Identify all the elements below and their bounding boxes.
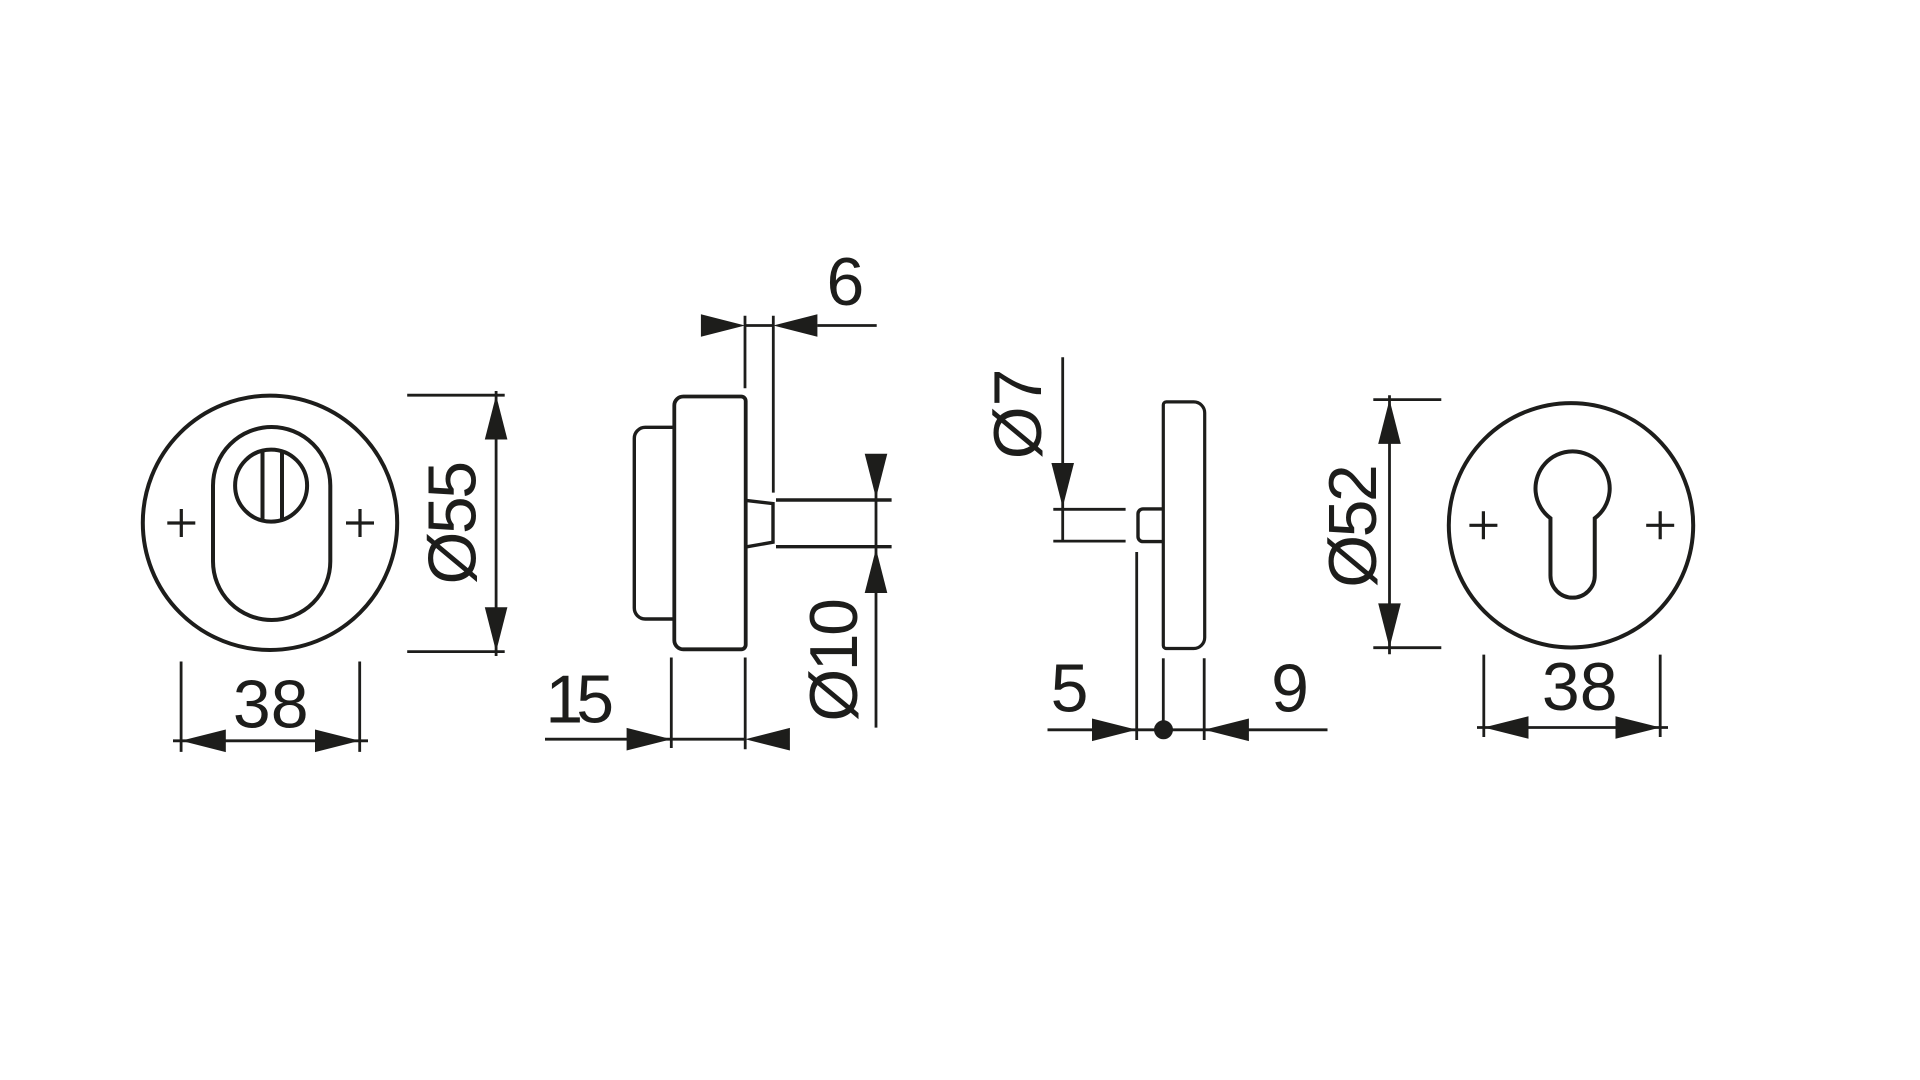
dimension 6: extension line left	[744, 316, 747, 389]
dimension Ø55: arrowhead up	[485, 395, 508, 439]
dimension 38 (view 4): dimension line	[1477, 726, 1668, 729]
dimension 6: arrowhead left-pointing (right side)	[773, 314, 817, 337]
svg-text:38: 38	[1542, 649, 1618, 725]
dimension 38 (view 4): extension line left	[1482, 655, 1485, 737]
plus mark left	[167, 509, 195, 537]
plus mark right (view 4)	[1646, 511, 1674, 539]
svg-text:9: 9	[1271, 651, 1309, 727]
svg-text:Ø52: Ø52	[1315, 467, 1391, 588]
dimension 6: tail line	[817, 324, 876, 327]
dimension 38 (view 1): dimension line	[173, 739, 368, 742]
dimension Ø52: arrowhead up	[1378, 400, 1401, 444]
dimension 15: arrowhead left-pointing	[745, 728, 790, 751]
dimension 5/9: extension line (body left face)	[1162, 658, 1165, 721]
dimension 6: dimension line segment	[745, 324, 773, 327]
dimension Ø55: extension line bottom	[407, 650, 505, 653]
dimension 38 (view 1): arrowhead left	[181, 730, 226, 753]
dimension 9: extension line (body right face)	[1203, 658, 1206, 740]
oval cylinder-protection insert	[213, 427, 330, 620]
euro profile keyhole	[1535, 451, 1609, 597]
dimension Ø7: dimension line vertical	[1061, 357, 1064, 541]
svg-text:Ø55: Ø55	[415, 463, 491, 584]
pin stub (left protrusion)	[1138, 509, 1164, 542]
svg-text:5: 5	[1051, 651, 1089, 727]
dimension Ø10: extension line top (pin silhouette)	[776, 498, 892, 501]
outer circle Ø55 rosette	[143, 396, 397, 650]
dimension Ø52: arrowhead down	[1378, 603, 1401, 647]
plus mark right	[346, 509, 374, 537]
dimension Ø55: dimension line	[495, 391, 498, 656]
dimension 15: dimension line with left tail	[545, 738, 745, 741]
dimension 9: arrowhead left-pointing	[1204, 719, 1249, 742]
dimension Ø10: extension line bottom	[776, 545, 892, 548]
dimension 38 (view 1): arrowhead right	[315, 730, 360, 753]
svg-text:Ø7: Ø7	[980, 369, 1056, 460]
dimension Ø10: dimension line	[875, 454, 878, 728]
dimension 38 (view 1): extension line right	[358, 662, 361, 752]
dimension Ø7: arrowhead down	[1051, 463, 1074, 507]
svg-text:38: 38	[233, 666, 309, 742]
dimension Ø52: extension line bottom	[1373, 646, 1441, 649]
dimension Ø52: extension line top	[1373, 398, 1441, 401]
outer circle Ø52 escutcheon	[1449, 403, 1693, 647]
svg-text:Ø10: Ø10	[796, 600, 872, 722]
dimension Ø55: extension line top	[407, 394, 505, 397]
svg-text:15: 15	[545, 662, 611, 738]
dimension 38 (view 1): extension line left	[180, 662, 183, 752]
screw slot line left	[261, 451, 265, 521]
spindle neck (tapered stub)	[746, 500, 773, 547]
dimension 5: arrowhead right-pointing	[1092, 719, 1137, 742]
dimension Ø55: arrowhead down	[485, 607, 508, 651]
dimension 6: arrowhead right-pointing (left side)	[701, 314, 745, 337]
svg-text:6: 6	[826, 244, 864, 320]
dimension 38 (view 4): extension line right	[1659, 655, 1662, 737]
dimension 15: arrowhead right-pointing	[627, 728, 672, 751]
dimension 5/9: junction dot	[1154, 720, 1173, 739]
dimension 38 (view 4): arrowhead right	[1616, 716, 1661, 739]
screw head circle	[235, 450, 307, 522]
dimension Ø10: arrowhead down	[865, 454, 888, 498]
dimension Ø7: extension line top	[1053, 508, 1125, 511]
dimension 5: extension line (stub tip)	[1135, 552, 1138, 740]
dimension Ø10: arrowhead up	[865, 549, 888, 593]
dimension Ø7: extension line bottom	[1053, 540, 1125, 543]
back plate (small rounded rect)	[634, 427, 676, 619]
escutcheon body (rounded rect)	[1163, 402, 1204, 649]
screw slot line right	[280, 452, 284, 519]
dimension 5 and 9: common dimension line	[1048, 728, 1328, 731]
dimension Ø52: dimension line	[1388, 395, 1391, 654]
plus mark left (view 4)	[1469, 511, 1497, 539]
dimension 15: extension line right	[744, 658, 747, 750]
rosette body (large rounded rect)	[674, 397, 745, 650]
dimension 6: extension line right	[772, 316, 775, 493]
dimension 38 (view 4): arrowhead left	[1484, 716, 1529, 739]
dimension 15: extension line left	[670, 658, 673, 749]
